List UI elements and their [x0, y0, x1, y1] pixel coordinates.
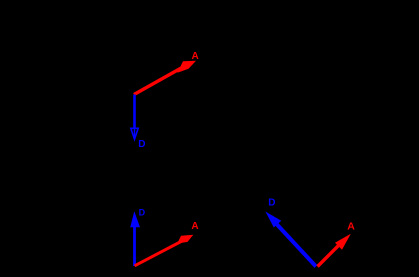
- svg-text:A: A: [192, 51, 199, 62]
- vector D (group a, blue, down): [131, 95, 138, 140]
- svg-text:D: D: [138, 139, 145, 150]
- svg-text:D: D: [139, 207, 146, 217]
- svg-text:A: A: [191, 221, 198, 232]
- vector A (group a, red, up-right): [134, 61, 196, 95]
- vector D up (group b, blue, up): [130, 211, 140, 266]
- vector D (group c, blue, up-left): [265, 212, 316, 267]
- vector A (group b, red, up-right): [135, 235, 194, 266]
- svg-text:D: D: [268, 198, 275, 209]
- svg-text:A: A: [347, 220, 355, 232]
- vector A (group c, red, up-right): [318, 234, 351, 267]
